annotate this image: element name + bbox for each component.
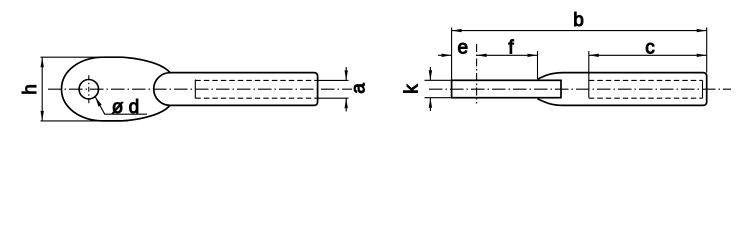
extension line b/c right xyxy=(706,28,708,73)
dim h line xyxy=(41,57,43,121)
bore hidden lines (right view) xyxy=(589,79,703,81)
dim c line xyxy=(589,54,707,56)
dim h arrows xyxy=(41,57,44,121)
swage bullet end xyxy=(154,73,170,106)
svg-text:e: e xyxy=(458,38,469,59)
hole position centerline vertical xyxy=(476,44,478,104)
dim c arrows xyxy=(589,54,707,57)
dim k shafts xyxy=(429,67,431,111)
extension line f right at swage xyxy=(537,51,539,79)
hole circle xyxy=(79,80,98,99)
eye outline xyxy=(62,57,171,121)
dim h extension lines xyxy=(41,56,107,58)
dim a arrows xyxy=(345,70,348,108)
svg-text:b: b xyxy=(573,10,584,31)
extension line c left xyxy=(588,51,590,98)
svg-text:k: k xyxy=(402,84,423,94)
dim a extension lines xyxy=(318,80,349,98)
dim f line xyxy=(477,54,538,56)
svg-text:a: a xyxy=(349,83,370,94)
leader arrow xyxy=(96,97,102,106)
svg-text:h: h xyxy=(20,84,41,95)
flat tongue bar xyxy=(452,80,561,97)
svg-text:c: c xyxy=(645,38,655,59)
dim b arrows xyxy=(452,29,707,32)
dim k extension lines xyxy=(425,80,451,97)
dim f arrows xyxy=(477,54,538,57)
tube (right view) with taper xyxy=(538,73,707,106)
dim k arrows xyxy=(429,70,432,107)
svg-text:f: f xyxy=(508,38,514,59)
left view centerline xyxy=(48,88,352,90)
leader for hole dia xyxy=(96,97,147,114)
extension line b/e left xyxy=(451,28,453,81)
bore hidden lines (left view) xyxy=(195,79,317,81)
right view centerline xyxy=(429,88,731,90)
dim a line with outside shafts xyxy=(345,67,347,112)
svg-text:ø d: ø d xyxy=(112,97,139,118)
tube (left view) xyxy=(170,73,318,106)
dim b line xyxy=(452,30,707,32)
dim e outside arrow and shaft xyxy=(438,54,452,56)
hole vertical centerline xyxy=(88,75,90,103)
